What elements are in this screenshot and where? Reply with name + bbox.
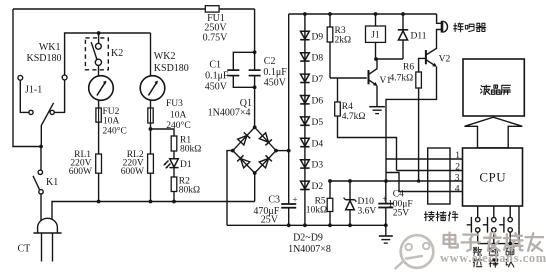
resistor R3 bbox=[329, 14, 331, 27]
svg-text:J1-1: J1-1 bbox=[25, 85, 42, 96]
node R1 branch tap bbox=[149, 127, 153, 131]
wire junction down to K1 bbox=[40, 147, 42, 171]
wire connector wire 4 bbox=[386, 173, 463, 192]
diode D7 bbox=[301, 74, 310, 82]
thermostat WK2 circle bbox=[140, 76, 165, 101]
label buttons row1 bbox=[473, 247, 481, 255]
svg-text:K2: K2 bbox=[111, 48, 123, 59]
svg-text:2kΩ: 2kΩ bbox=[335, 35, 352, 45]
button actuator bbox=[487, 217, 489, 233]
wire R4 down and over to connector wire 2 bbox=[338, 116, 397, 171]
watermark text bbox=[444, 233, 458, 248]
wire FU2 to RL1 bbox=[98, 122, 100, 154]
svg-text:25V: 25V bbox=[393, 209, 410, 219]
wire WK2 circle to FU3 bbox=[150, 100, 152, 108]
resistor R6 bbox=[416, 72, 422, 88]
wire RL2 to bottom bus bbox=[150, 173, 152, 201]
thermostat WK1 circle bbox=[89, 76, 114, 101]
wire V1 base line bbox=[330, 77, 367, 79]
transistor V2 emitter bbox=[426, 60, 436, 66]
label buttons row2 bbox=[473, 258, 481, 267]
fuse FU2 bbox=[96, 108, 101, 122]
wire connector wire 1 bbox=[386, 158, 463, 160]
wire V2 emitter down bbox=[386, 67, 437, 181]
svg-text:C1: C1 bbox=[209, 60, 221, 71]
svg-text:C2: C2 bbox=[264, 56, 276, 67]
wire K1 to plug bbox=[40, 194, 42, 224]
wire top bus (live, left section) bbox=[13, 8, 255, 10]
wire top bus corner to buzzer bbox=[437, 14, 441, 23]
transistor V1 base bar bbox=[368, 70, 370, 84]
svg-text:600W: 600W bbox=[121, 167, 144, 177]
svg-text:CPU: CPU bbox=[479, 170, 506, 185]
svg-text:3.6V: 3.6V bbox=[358, 206, 377, 216]
node J1/D11/V1 junction bbox=[374, 57, 378, 61]
svg-text:600W: 600W bbox=[69, 167, 92, 177]
wire vcc rail / connector wire 3 bbox=[330, 180, 463, 182]
svg-text:FU3: FU3 bbox=[166, 99, 183, 109]
wire J1 bottom to junction bbox=[375, 42, 377, 59]
LCD box bbox=[463, 59, 524, 116]
svg-text:D1: D1 bbox=[180, 160, 192, 170]
svg-text:D7: D7 bbox=[312, 75, 324, 85]
wire buttons common bbox=[478, 243, 519, 245]
svg-text:D2: D2 bbox=[312, 182, 324, 192]
svg-text:KSD180: KSD180 bbox=[26, 53, 61, 64]
svg-text:WK2: WK2 bbox=[154, 51, 176, 62]
wire lower-right contact to right column bbox=[54, 80, 64, 112]
svg-text:4: 4 bbox=[455, 184, 460, 194]
arrow CPU to LCD bbox=[465, 117, 523, 148]
terminal J1-1 upper-left bbox=[18, 75, 23, 80]
buzzer symbol bbox=[441, 21, 444, 33]
svg-text:80kΩ: 80kΩ bbox=[180, 145, 201, 155]
relay coil J1 wire bbox=[375, 14, 377, 26]
svg-text:1N4007×8: 1N4007×8 bbox=[288, 244, 331, 255]
svg-text:www.elecfans.com: www.elecfans.com bbox=[440, 251, 546, 265]
node C3 bottom bbox=[287, 223, 291, 227]
wire V1 emitter to ground bbox=[376, 86, 378, 107]
bridge diode lower-left bbox=[237, 155, 250, 168]
svg-text:+: + bbox=[293, 194, 298, 204]
switch K1 blade bbox=[33, 176, 40, 190]
diode D4 bbox=[301, 138, 310, 146]
node buttons common bbox=[508, 242, 512, 246]
svg-text:KSD180: KSD180 bbox=[154, 63, 189, 74]
contact K2 top bbox=[96, 43, 102, 49]
svg-text:CT: CT bbox=[18, 244, 31, 255]
svg-text:V2: V2 bbox=[439, 54, 451, 64]
wire button bottom stub bbox=[493, 232, 495, 244]
svg-text:D2~D9: D2~D9 bbox=[293, 232, 323, 243]
resistor R1 bbox=[171, 136, 177, 151]
switch blade lower pair + wire down to junction bbox=[41, 103, 53, 147]
connector box bbox=[428, 148, 450, 204]
svg-text:4.7kΩ: 4.7kΩ bbox=[342, 112, 366, 122]
resistor R4 bbox=[335, 102, 341, 116]
wire FU1 line down to bridge bbox=[254, 9, 256, 70]
fuse FU3 bbox=[148, 108, 153, 123]
wire CPU fourth stub bbox=[518, 206, 520, 244]
wire bridge bottom to neutral bus bbox=[254, 173, 256, 202]
wire branch to R1 chain bbox=[151, 129, 175, 136]
wire button stubs from CPU bbox=[477, 206, 479, 217]
svg-text:+: + bbox=[382, 194, 387, 204]
bridge diode upper-left bbox=[238, 132, 251, 145]
CPU box bbox=[463, 148, 523, 206]
label buzzer bbox=[454, 23, 463, 32]
transistor V2 base bar bbox=[425, 50, 427, 64]
svg-text:25V: 25V bbox=[261, 214, 279, 225]
terminal J1-1 upper-right bbox=[62, 75, 67, 80]
svg-text:R6: R6 bbox=[403, 62, 414, 72]
watermark logo bbox=[401, 235, 434, 268]
svg-text:240°C: 240°C bbox=[103, 126, 127, 137]
svg-text:J1: J1 bbox=[371, 31, 380, 41]
diode D5 bbox=[301, 117, 310, 125]
svg-text:3: 3 bbox=[455, 173, 460, 183]
svg-text:10A: 10A bbox=[103, 116, 120, 126]
wire DC plus rail up to top bus bbox=[288, 14, 290, 151]
diode D8 bbox=[301, 53, 310, 61]
node diode chain bottom bbox=[303, 223, 307, 227]
wire R6 down to rail bbox=[418, 88, 420, 181]
plug CT prongs bbox=[41, 233, 43, 262]
bridge corner nodes bbox=[253, 125, 257, 129]
button contact top bbox=[508, 217, 512, 221]
svg-text:C4: C4 bbox=[393, 190, 404, 200]
wire top bus DC plus bbox=[289, 13, 437, 15]
zener D10 bbox=[349, 181, 351, 200]
node RL2 bottom bbox=[149, 200, 153, 204]
node DC plus bbox=[287, 149, 291, 153]
svg-text:C3: C3 bbox=[268, 194, 280, 205]
wire ground bus bbox=[227, 224, 386, 226]
wire y33 bus corner down to WK2 bbox=[150, 33, 152, 76]
node diode chain top bbox=[303, 12, 307, 16]
node R2 bottom bbox=[172, 200, 176, 204]
wire R2 to bottom bus bbox=[173, 192, 175, 202]
button actuator bbox=[503, 217, 505, 233]
svg-text:WK1: WK1 bbox=[39, 42, 61, 53]
label LCD bbox=[481, 85, 491, 94]
transistor V1 emitter bbox=[369, 80, 377, 86]
svg-text:D11: D11 bbox=[411, 32, 427, 42]
svg-text:0.1μF: 0.1μF bbox=[263, 67, 287, 78]
relay coil J1 box bbox=[366, 26, 386, 42]
transistor V2 collector bbox=[426, 30, 441, 56]
wire DC plus down to C3 bbox=[288, 151, 290, 204]
node J1 top bbox=[374, 12, 378, 16]
node rail C4 bbox=[384, 179, 388, 183]
wire WK1 circle to FU2 bbox=[98, 100, 100, 108]
thermostat WK2 pointer bbox=[148, 81, 157, 95]
wire bottom bus with corner to plug bbox=[52, 202, 255, 225]
svg-text:D3: D3 bbox=[312, 161, 324, 171]
heater RL2 bbox=[148, 154, 154, 173]
heater RL1 bbox=[96, 154, 102, 173]
capacitor C1 bbox=[227, 69, 239, 71]
svg-text:2: 2 bbox=[455, 162, 460, 172]
diode D3 bbox=[301, 160, 310, 168]
svg-text:R4: R4 bbox=[342, 102, 353, 112]
label connector name bbox=[424, 211, 434, 221]
terminal J1-1 lower-left contact bbox=[29, 110, 33, 114]
terminal J1-1 lower-right contact bbox=[50, 110, 54, 114]
wire bridge left to ground rail bbox=[227, 151, 233, 226]
switch K1 top contact bbox=[38, 170, 42, 174]
svg-text:10A: 10A bbox=[170, 110, 187, 120]
LED D1 bbox=[170, 159, 179, 167]
diode D6 bbox=[301, 96, 310, 104]
wire button bottom stub bbox=[509, 232, 511, 244]
bridge diode upper-right bbox=[259, 133, 272, 146]
plug CT body bbox=[38, 218, 58, 233]
diode D2 bbox=[301, 181, 310, 189]
node D10 bottom bbox=[348, 223, 352, 227]
svg-text:D5: D5 bbox=[312, 118, 324, 128]
wire button bottom stub bbox=[477, 232, 479, 244]
node rail D10 bbox=[348, 179, 352, 183]
node junction K1 column bbox=[39, 145, 43, 149]
node RL1 bottom bbox=[97, 200, 101, 204]
node K2 tap on y33 bus bbox=[97, 31, 101, 35]
button contact top bbox=[492, 217, 496, 221]
button contact bottom bbox=[492, 228, 496, 232]
wire bridge right to DC plus rail bbox=[276, 150, 289, 152]
resistor R6 wire to V2 base bbox=[419, 58, 426, 72]
svg-text:R3: R3 bbox=[335, 26, 346, 36]
node R3 top bbox=[328, 12, 332, 16]
resistor R2 bbox=[171, 177, 177, 192]
switch blade K2 bbox=[91, 42, 97, 59]
wire junction to D11 bbox=[376, 58, 404, 60]
wire from upper-left terminal down and right bbox=[20, 80, 29, 112]
diode D9 bbox=[301, 31, 310, 39]
svg-text:450V: 450V bbox=[264, 78, 287, 89]
node rail R5 bbox=[328, 179, 332, 183]
wire C1 loop bbox=[233, 52, 254, 87]
wire R4 tap bbox=[337, 78, 339, 102]
wire bus to K2 top contact bbox=[98, 33, 100, 43]
ground symbol V1 bbox=[369, 106, 385, 108]
thermostat WK1 pointer bbox=[97, 81, 106, 95]
ground symbol main bbox=[385, 225, 387, 236]
svg-text:450V: 450V bbox=[205, 82, 228, 93]
svg-text:80kΩ: 80kΩ bbox=[179, 185, 200, 195]
svg-text:1: 1 bbox=[455, 151, 460, 161]
wire R3 to V1 base line bbox=[329, 42, 331, 78]
svg-text:D9: D9 bbox=[312, 32, 324, 42]
button contact bottom bbox=[476, 228, 480, 232]
switch K1 bottom contact bbox=[39, 190, 43, 194]
wire K2 to thermostat circle bbox=[98, 65, 100, 76]
wire C3 to ground bus bbox=[288, 208, 290, 226]
wire RL1 to bottom bus bbox=[98, 173, 100, 201]
wire D1 to R2 bbox=[173, 168, 175, 177]
node R5 bottom bbox=[328, 223, 332, 227]
relay contact K2 dashed box bbox=[85, 38, 108, 70]
LED D1 arrows bbox=[164, 161, 169, 166]
node C1C2 top bbox=[253, 50, 257, 54]
wire left border drop bbox=[13, 9, 39, 147]
fuse FU1 bbox=[205, 6, 219, 12]
svg-text:D6: D6 bbox=[312, 97, 324, 107]
button contact top bbox=[476, 217, 480, 221]
svg-text:D4: D4 bbox=[312, 139, 324, 149]
wire R1 to D1 bbox=[173, 151, 175, 159]
bridge diode lower-right bbox=[259, 155, 272, 168]
wire right column up to bus y33 bbox=[65, 33, 151, 75]
node C4 bottom bbox=[384, 223, 388, 227]
resistor R5 bbox=[329, 181, 331, 198]
button actuator bbox=[470, 217, 472, 233]
svg-text:K1: K1 bbox=[46, 177, 58, 188]
wire FU3 to RL2 bbox=[150, 123, 152, 154]
svg-text:0.1μF: 0.1μF bbox=[205, 71, 229, 82]
svg-text:4.7kΩ: 4.7kΩ bbox=[390, 74, 414, 84]
capacitor C4 bbox=[385, 181, 387, 203]
diode D11 bbox=[402, 14, 404, 30]
wire connector wire 2 bbox=[397, 170, 463, 172]
transistor V1 collector bbox=[369, 59, 378, 75]
button contact bottom bbox=[508, 228, 512, 232]
wire diode chain column bbox=[304, 14, 306, 225]
svg-text:10kΩ: 10kΩ bbox=[306, 206, 327, 216]
node C1C2 bottom bbox=[253, 85, 257, 89]
capacitor C3 bbox=[281, 203, 296, 205]
svg-text:1N4007×4: 1N4007×4 bbox=[208, 108, 251, 119]
contact K2 bottom bbox=[95, 59, 101, 65]
svg-text:D8: D8 bbox=[312, 54, 324, 64]
node D11 top bbox=[401, 12, 405, 16]
svg-text:0.75V: 0.75V bbox=[203, 32, 229, 43]
bridge Q1 outline bbox=[233, 127, 276, 173]
capacitor C2 bbox=[249, 69, 261, 71]
